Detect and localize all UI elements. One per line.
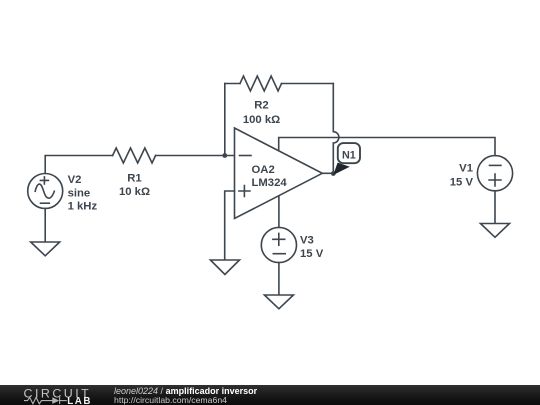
ground symbol at non-inverting input (210, 260, 239, 275)
wire: V2 top lead up and right to R1 (45, 156, 112, 174)
V3 plus symbol (273, 233, 285, 245)
wire: feedback left vertical (224, 84, 226, 156)
node flag N1 box (338, 143, 360, 163)
svg-text:LAB: LAB (67, 396, 92, 405)
op-amp non-inverting input plus symbol (239, 186, 250, 197)
attribution line 1: author / title (114, 387, 257, 397)
resistor R2 (240, 76, 282, 91)
wire: op-amp output stub (322, 172, 333, 174)
svg-text:V1: V1 (459, 163, 473, 175)
svg-text:sine: sine (68, 187, 91, 199)
V2 sine waveform symbol (35, 184, 54, 198)
svg-text:15 V: 15 V (300, 248, 324, 260)
wire: R2 right lead (282, 83, 334, 85)
voltage source V2 circle (28, 174, 63, 209)
CircuitLab logo (0, 385, 100, 405)
svg-text:V2: V2 (68, 174, 82, 186)
svg-text:N1: N1 (342, 149, 356, 161)
attribution line 2: url (114, 396, 227, 405)
voltage source V3 circle (261, 227, 296, 262)
V1 plus symbol (489, 174, 501, 186)
svg-text:100 kΩ: 100 kΩ (243, 114, 280, 126)
svg-text:1 kHz: 1 kHz (68, 201, 98, 213)
V2 plus symbol (40, 177, 48, 184)
wire: V3 to ground (278, 263, 280, 295)
node flag N1 pointer wedge (333, 163, 350, 175)
ground symbol at V1 (481, 224, 510, 238)
svg-text:OA2: OA2 (252, 164, 275, 176)
svg-text:R2: R2 (254, 100, 268, 112)
node junction dot at R1 / R2 / inverting input (222, 153, 227, 158)
voltage source V1 circle (477, 156, 512, 191)
wire: non-inverting input to ground (225, 191, 235, 260)
V2 minus symbol (41, 202, 50, 204)
svg-text:LM324: LM324 (252, 177, 288, 189)
ground symbol at V2 (31, 242, 60, 256)
wire: V2 to ground (44, 208, 46, 242)
svg-text:R1: R1 (127, 173, 141, 185)
ground symbol at V3 (264, 295, 293, 309)
op-amp OA2 triangle body (235, 128, 323, 219)
svg-text:10 kΩ: 10 kΩ (119, 186, 150, 198)
wire: R1 to op-amp inverting input (156, 155, 235, 157)
wire: R2 left lead (225, 83, 240, 85)
svg-text:15 V: 15 V (450, 176, 474, 188)
wire: feedback right vertical with hop over output wire (333, 84, 339, 175)
node dot at op-amp output (331, 171, 336, 176)
footer attribution bar (0, 385, 540, 405)
svg-text:V3: V3 (300, 235, 314, 247)
wire: output wire from op-amp edge to V1 (279, 138, 495, 156)
V3 minus symbol (273, 253, 285, 255)
wire: V1 to ground (494, 191, 496, 224)
resistor R1 (113, 148, 156, 163)
wire: op-amp power pin to V3 (278, 196, 280, 228)
V1 minus symbol (490, 164, 501, 166)
op-amp inverting input minus symbol (240, 155, 252, 157)
